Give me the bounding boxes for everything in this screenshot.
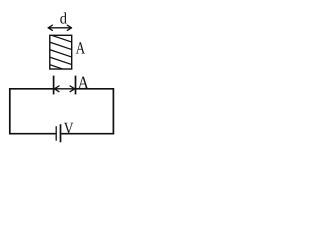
svg-text:A: A (78, 73, 89, 93)
svg-text:V: V (64, 119, 74, 138)
svg-text:d: d (60, 10, 67, 27)
svg-text:A: A (76, 38, 86, 57)
